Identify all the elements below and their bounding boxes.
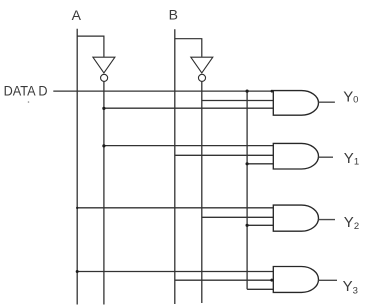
svg-text:1: 1 <box>354 157 359 168</box>
svg-text:3: 3 <box>353 285 358 296</box>
svg-text:Y: Y <box>344 214 354 231</box>
svg-text:A: A <box>72 7 82 23</box>
svg-text:Y: Y <box>343 88 353 105</box>
svg-text:B: B <box>169 6 178 22</box>
svg-text:2: 2 <box>354 221 359 232</box>
svg-text:Y: Y <box>343 278 353 295</box>
svg-text:DATA D: DATA D <box>4 83 48 99</box>
svg-text:0: 0 <box>353 95 358 106</box>
svg-text:Y: Y <box>344 150 354 167</box>
